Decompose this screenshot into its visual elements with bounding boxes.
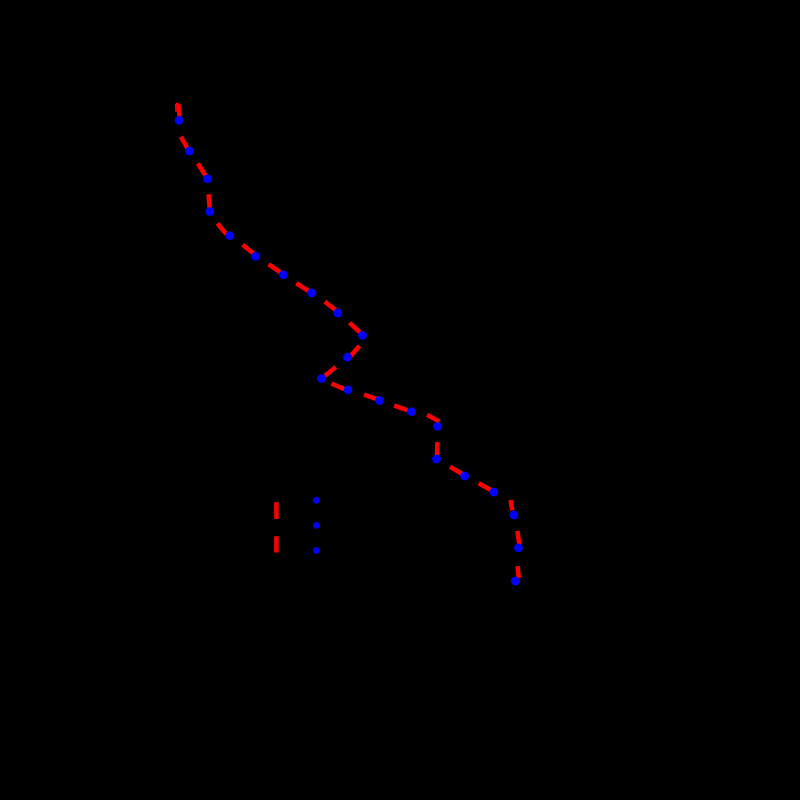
data point P15 [407,407,416,416]
curve dash d20 [511,500,513,510]
curve dash d18 [450,467,462,474]
data point P8 [308,289,317,298]
legend point marker 1 [313,497,320,504]
curve dash d19 [479,483,491,490]
legend line sample dash 2 [274,536,279,552]
curve dash d6 [243,245,254,254]
curve dash d1 (into first point) [177,104,182,117]
data point P22 [511,577,520,586]
legend line sample dash 1 [274,502,279,519]
curve dash d3 [198,164,206,176]
legend point marker 2 [313,522,320,529]
curve dash d14 [364,395,377,400]
data point P17 [432,455,441,464]
curve dash d9 [325,302,336,311]
curve dash d2 [181,137,188,149]
data point P19 [489,488,498,497]
data point P13 [344,385,353,394]
curve dash d13 [331,384,344,389]
curve dash d15 [394,406,407,411]
legend point marker 3 [313,547,320,554]
data point P11 [343,353,352,362]
data point P9 [333,309,342,318]
curve dash d10 [350,323,360,332]
data point P5 [225,231,234,240]
data point P18 [460,472,469,481]
curve dash d5 [217,223,226,234]
data point P14 [375,396,384,405]
data point P21 [514,543,523,552]
data point P16 [433,422,442,431]
data point P4 [205,207,214,216]
curve dash d12 [325,367,336,376]
data point P2 [185,147,194,156]
data point P6 [251,252,260,261]
curve dash d22 [518,566,519,578]
data point P3 [203,174,212,183]
curve dash d16 [427,415,439,422]
curve dash d11 [350,346,359,357]
curve dash d4 [209,194,210,208]
curve start hook thin sliver [175,104,177,112]
curve dash d8 [296,283,308,291]
data point P10 [358,331,367,340]
data point P20 [509,511,518,520]
data point P1 [175,116,184,125]
curve dash d17 [435,442,440,456]
curve start hook top bar [176,103,179,105]
curve dash d7 [269,264,281,272]
data point P7 [279,270,288,279]
curve dash d21 [517,531,519,546]
data point P12 [317,374,326,383]
